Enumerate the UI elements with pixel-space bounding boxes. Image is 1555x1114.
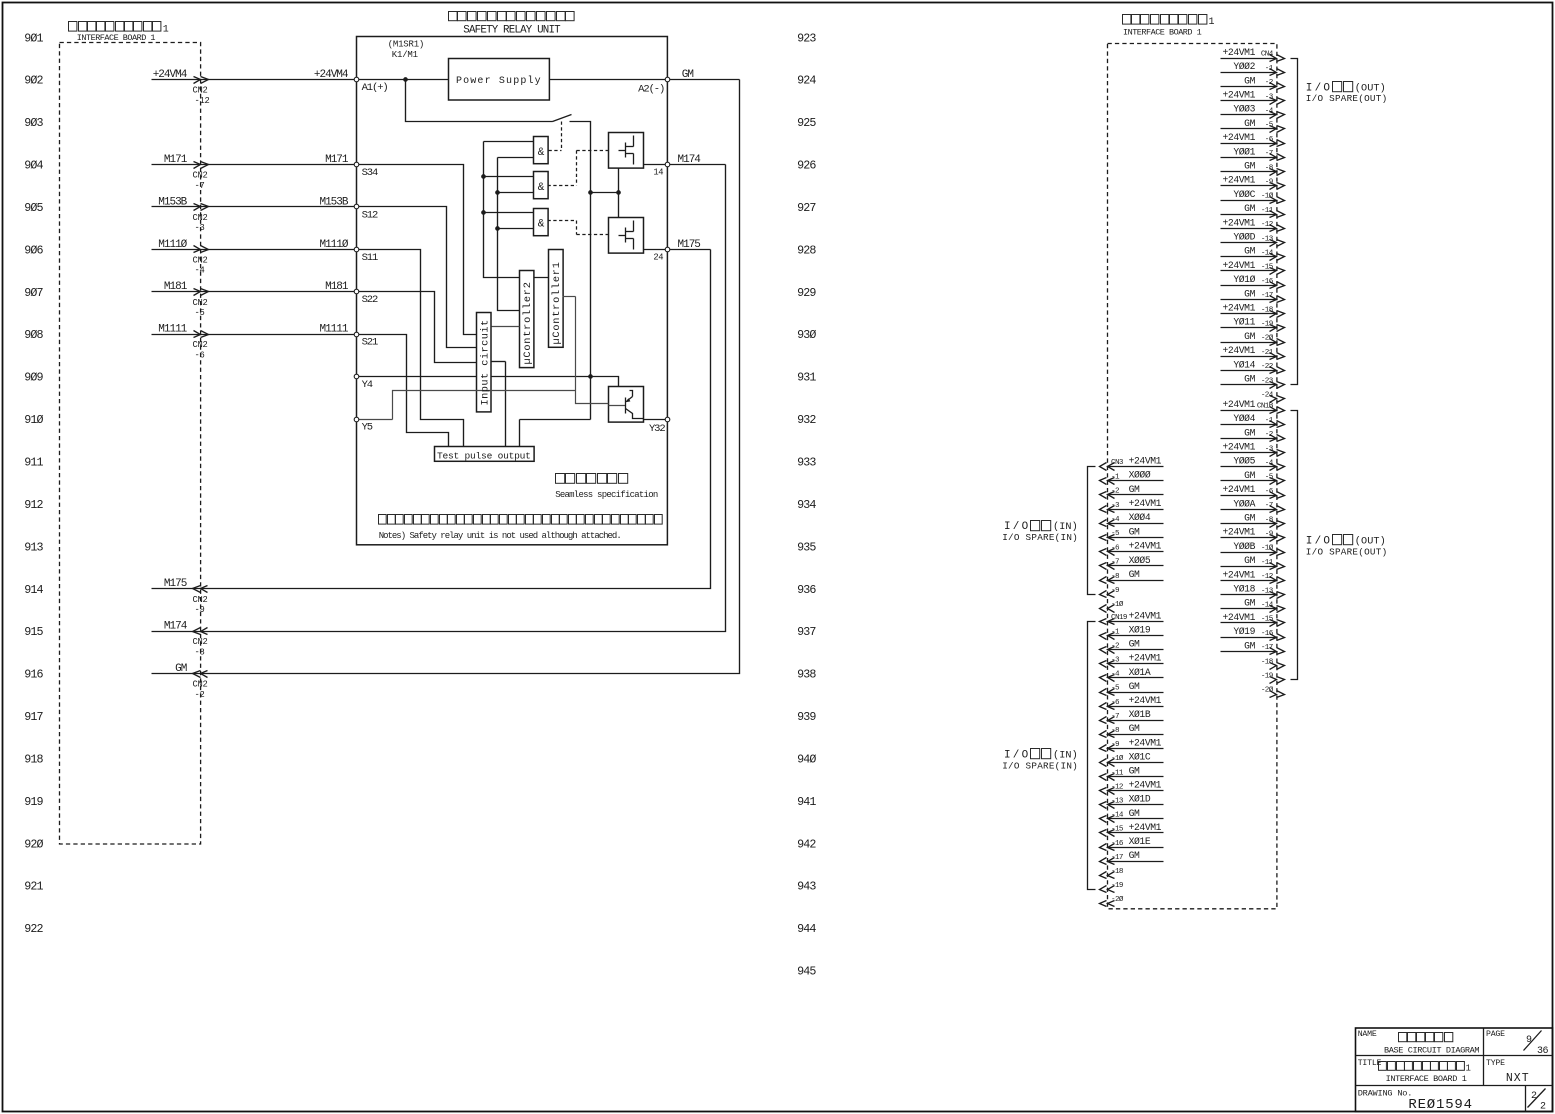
svg-text:-4: -4 [1111, 671, 1120, 679]
svg-text:GM: GM [1244, 640, 1255, 651]
svg-text:XØ1A: XØ1A [1129, 667, 1151, 678]
svg-text:-18: -18 [1111, 868, 1124, 876]
svg-text:M174: M174 [678, 154, 702, 166]
svg-text:+24VM1: +24VM1 [1129, 822, 1162, 833]
svg-text:-7: -7 [1265, 502, 1273, 510]
svg-text:-11: -11 [1111, 769, 1124, 777]
svg-text:GM: GM [1244, 374, 1255, 385]
svg-text:-8: -8 [1265, 516, 1274, 524]
svg-text:-1Ø: -1Ø [1261, 192, 1274, 201]
svg-text:-2Ø: -2Ø [1261, 686, 1274, 695]
svg-text:-5: -5 [1111, 530, 1120, 538]
svg-text:911: 911 [24, 456, 43, 470]
svg-text:-19: -19 [1261, 321, 1274, 329]
svg-text:938: 938 [797, 668, 816, 682]
svg-text:9Ø8: 9Ø8 [24, 328, 43, 342]
svg-text:YØØB: YØØB [1233, 541, 1255, 552]
svg-text:-9: -9 [1111, 587, 1120, 595]
svg-text:-13: -13 [1261, 235, 1274, 243]
svg-text:9Ø2: 9Ø2 [24, 74, 43, 88]
svg-text:939: 939 [797, 710, 816, 724]
svg-text:(M1SR1): (M1SR1) [388, 40, 424, 50]
svg-text:S21: S21 [362, 337, 378, 349]
svg-text:PAGE: PAGE [1486, 1030, 1505, 1039]
svg-text:+24VM1: +24VM1 [1223, 612, 1256, 623]
svg-text:YØØ3: YØØ3 [1233, 104, 1255, 115]
svg-text:Y4: Y4 [362, 379, 373, 391]
svg-text:935: 935 [797, 540, 816, 554]
svg-text:CN1B: CN1B [1257, 403, 1274, 411]
svg-text:944: 944 [797, 922, 816, 936]
svg-text:91Ø: 91Ø [24, 413, 43, 427]
svg-text:945: 945 [797, 965, 816, 979]
svg-text:SAFETY RELAY UNIT: SAFETY RELAY UNIT [463, 25, 561, 37]
svg-text:-23: -23 [1261, 377, 1274, 385]
svg-text:GM: GM [175, 663, 187, 675]
svg-text:94Ø: 94Ø [797, 752, 816, 766]
svg-text:-22: -22 [1261, 363, 1274, 371]
svg-text:A2(-): A2(-) [638, 83, 664, 95]
svg-text:933: 933 [797, 456, 816, 470]
svg-text:NXT: NXT [1506, 1072, 1530, 1085]
svg-text:2: 2 [1531, 1091, 1537, 1102]
svg-text:µController1: µController1 [551, 261, 563, 344]
svg-text:S11: S11 [362, 252, 378, 264]
svg-text:GM: GM [1129, 484, 1140, 495]
svg-text:CN2: CN2 [193, 595, 208, 605]
svg-text:-16: -16 [1261, 630, 1274, 638]
svg-text:GM: GM [1244, 598, 1255, 609]
svg-text:927: 927 [797, 201, 816, 215]
svg-text:CN2: CN2 [193, 340, 208, 350]
svg-text:I/O SPARE(OUT): I/O SPARE(OUT) [1306, 547, 1388, 558]
svg-text:M171: M171 [164, 154, 188, 166]
svg-text:-14: -14 [1111, 812, 1124, 820]
svg-text:+24VM1: +24VM1 [1223, 345, 1256, 356]
svg-text:Test pulse output: Test pulse output [437, 450, 531, 461]
svg-text:-11: -11 [1261, 207, 1274, 215]
svg-text:YØ18: YØ18 [1233, 584, 1255, 595]
svg-text:-4: -4 [1265, 108, 1274, 116]
svg-text:+24VM1: +24VM1 [1223, 399, 1256, 410]
svg-text:9Ø6: 9Ø6 [24, 243, 43, 257]
svg-text:INTERFACE BOARD 1: INTERFACE BOARD 1 [1123, 28, 1202, 38]
svg-text:-7: -7 [1111, 713, 1119, 721]
svg-text:-1: -1 [1265, 417, 1274, 425]
svg-text:XØØØ: XØØØ [1129, 470, 1151, 481]
svg-text:YØ1Ø: YØ1Ø [1233, 274, 1255, 285]
svg-text:937: 937 [797, 625, 816, 639]
svg-text:M1111: M1111 [319, 324, 348, 336]
svg-text:GM: GM [1244, 161, 1255, 172]
svg-text:GM: GM [1129, 681, 1140, 692]
svg-text:931: 931 [797, 371, 816, 385]
svg-text:-16: -16 [1111, 840, 1124, 848]
svg-text:-7: -7 [1265, 150, 1273, 158]
svg-text:92Ø: 92Ø [24, 837, 43, 851]
svg-text:XØØ5: XØØ5 [1129, 555, 1151, 566]
svg-text:CN2: CN2 [193, 255, 208, 265]
svg-text:1: 1 [1209, 17, 1215, 28]
svg-text:+24VM1: +24VM1 [1129, 498, 1162, 509]
svg-text:-1Ø: -1Ø [1111, 600, 1124, 609]
svg-text:+24VM4: +24VM4 [153, 69, 188, 81]
svg-text:INTERFACE BOARD 1: INTERFACE BOARD 1 [1386, 1074, 1467, 1084]
svg-text:+24VM1: +24VM1 [1223, 569, 1256, 580]
svg-text:-1: -1 [1111, 473, 1120, 481]
svg-text:-7: -7 [195, 181, 205, 191]
svg-text:-3: -3 [195, 223, 205, 233]
svg-text:943: 943 [797, 880, 816, 894]
svg-text:+24VM1: +24VM1 [1129, 455, 1162, 466]
svg-text:-17: -17 [1111, 854, 1123, 862]
svg-text:XØ1C: XØ1C [1129, 751, 1151, 762]
svg-text:917: 917 [24, 710, 43, 724]
svg-text:+24VM1: +24VM1 [1129, 653, 1162, 664]
svg-text:CN2: CN2 [193, 637, 208, 647]
svg-text:I/O SPARE(OUT): I/O SPARE(OUT) [1306, 93, 1388, 104]
svg-text:-9: -9 [1265, 531, 1274, 539]
svg-text:-13: -13 [1111, 798, 1124, 806]
svg-text:-13: -13 [1261, 587, 1274, 595]
svg-text:+24VM1: +24VM1 [1129, 737, 1162, 748]
svg-text:-2: -2 [1111, 642, 1120, 650]
svg-text:-9: -9 [1265, 179, 1274, 187]
svg-text:-4: -4 [1111, 516, 1120, 524]
svg-text:M1111: M1111 [158, 324, 187, 336]
svg-text:TITLE: TITLE [1358, 1059, 1382, 1068]
svg-text:M175: M175 [678, 239, 701, 251]
svg-text:K1/M1: K1/M1 [392, 50, 418, 60]
svg-text:YØØC: YØØC [1233, 189, 1255, 200]
svg-text:2: 2 [1540, 1102, 1546, 1113]
svg-text:-2: -2 [1111, 488, 1120, 496]
svg-text:YØØ2: YØØ2 [1233, 61, 1255, 72]
svg-text:YØ11: YØ11 [1233, 317, 1255, 328]
svg-text:-5: -5 [1265, 474, 1274, 482]
svg-text:1: 1 [163, 25, 169, 36]
svg-text:+24VM1: +24VM1 [1223, 527, 1256, 538]
svg-text:-15: -15 [1111, 826, 1124, 834]
svg-text:A1(+): A1(+) [362, 82, 388, 94]
svg-text:-12: -12 [1261, 573, 1274, 581]
svg-text:CN4: CN4 [1261, 51, 1274, 59]
svg-text:36: 36 [1537, 1046, 1549, 1057]
svg-text:919: 919 [24, 795, 43, 809]
svg-text:M153B: M153B [319, 196, 348, 208]
svg-text:M153B: M153B [158, 196, 187, 208]
svg-text:1: 1 [1466, 1064, 1471, 1074]
svg-text:-21: -21 [1261, 349, 1274, 357]
svg-text:CN2: CN2 [193, 86, 208, 96]
svg-text:DRAWING No.: DRAWING No. [1358, 1088, 1413, 1098]
svg-text:942: 942 [797, 837, 816, 851]
svg-text:+24VM1: +24VM1 [1129, 695, 1162, 706]
svg-text:929: 929 [797, 286, 816, 300]
svg-text:-8: -8 [195, 647, 205, 657]
svg-text:934: 934 [797, 498, 816, 512]
svg-text:+24VM1: +24VM1 [1129, 780, 1162, 791]
svg-text:GM: GM [1129, 569, 1140, 580]
svg-text:&: & [538, 219, 545, 231]
svg-text:-2Ø: -2Ø [1111, 895, 1124, 904]
svg-text:&: & [538, 182, 545, 194]
svg-text:-1: -1 [1265, 65, 1274, 73]
svg-text:CN2: CN2 [193, 298, 208, 308]
svg-text:-15: -15 [1261, 616, 1274, 624]
svg-text:-5: -5 [1111, 685, 1120, 693]
svg-text:YØ19: YØ19 [1233, 626, 1255, 637]
svg-text:+24VM1: +24VM1 [1223, 132, 1256, 143]
svg-text:921: 921 [24, 880, 43, 894]
svg-text:912: 912 [24, 498, 43, 512]
svg-text:+24VM1: +24VM1 [1223, 90, 1256, 101]
svg-text:936: 936 [797, 583, 816, 597]
svg-text:I/O SPARE(IN): I/O SPARE(IN) [1002, 761, 1078, 772]
svg-text:Input circuit: Input circuit [479, 319, 491, 405]
svg-text:-1Ø: -1Ø [1111, 754, 1124, 763]
svg-text:GM: GM [1244, 288, 1255, 299]
svg-text:+24VM1: +24VM1 [1223, 217, 1256, 228]
svg-text:GM: GM [1244, 427, 1255, 438]
svg-text:GM: GM [1244, 555, 1255, 566]
svg-text:Y5: Y5 [362, 422, 373, 434]
svg-text:-17: -17 [1261, 644, 1273, 652]
svg-text:-6: -6 [195, 350, 205, 360]
svg-text:-18: -18 [1261, 306, 1274, 314]
svg-text:-1: -1 [1111, 628, 1120, 636]
svg-text:-6: -6 [1111, 699, 1120, 707]
svg-text:-8: -8 [1265, 164, 1274, 172]
svg-text:GM: GM [1129, 639, 1140, 650]
svg-text:93Ø: 93Ø [797, 328, 816, 342]
svg-text:926: 926 [797, 159, 816, 173]
svg-text:918: 918 [24, 752, 43, 766]
svg-text:-17: -17 [1261, 292, 1273, 300]
svg-text:M174: M174 [164, 621, 188, 633]
svg-text:CN2: CN2 [193, 213, 208, 223]
svg-text:+24VM1: +24VM1 [1129, 541, 1162, 552]
svg-text:CN2: CN2 [193, 680, 208, 690]
svg-text:Notes) Safety relay unit is no: Notes) Safety relay unit is not used alt… [379, 531, 621, 541]
svg-text:GM: GM [1244, 203, 1255, 214]
svg-text:-18: -18 [1261, 658, 1274, 666]
svg-text:YØØA: YØØA [1233, 498, 1255, 509]
svg-text:-2: -2 [1265, 79, 1274, 87]
svg-text:M111Ø: M111Ø [158, 239, 187, 251]
svg-text:-15: -15 [1261, 264, 1274, 272]
svg-text:M171: M171 [325, 154, 349, 166]
svg-text:-12: -12 [1111, 783, 1124, 791]
svg-text:-16: -16 [1261, 278, 1274, 286]
svg-text:NAME: NAME [1358, 1030, 1377, 1039]
svg-text:S34: S34 [362, 167, 378, 179]
svg-text:M111Ø: M111Ø [319, 239, 348, 251]
svg-text:GM: GM [1129, 766, 1140, 777]
svg-text:BASE CIRCUIT DIAGRAM: BASE CIRCUIT DIAGRAM [1384, 1045, 1479, 1055]
svg-text:9Ø4: 9Ø4 [24, 159, 43, 173]
svg-text:+24VM1: +24VM1 [1223, 47, 1256, 58]
svg-text:S22: S22 [362, 294, 378, 306]
svg-text:-3: -3 [1111, 657, 1120, 665]
svg-text:-12: -12 [195, 96, 210, 106]
svg-text:-5: -5 [1265, 122, 1274, 130]
svg-text:+24VM1: +24VM1 [1129, 610, 1162, 621]
svg-text:-14: -14 [1261, 602, 1274, 610]
svg-text:-11: -11 [1261, 559, 1274, 567]
svg-text:GM: GM [1244, 513, 1255, 524]
svg-text:M181: M181 [164, 281, 188, 293]
svg-text:9Ø1: 9Ø1 [24, 31, 43, 45]
svg-text:-19: -19 [1111, 882, 1124, 890]
svg-text:941: 941 [797, 795, 816, 809]
svg-text:9Ø5: 9Ø5 [24, 201, 43, 215]
svg-text:-3: -3 [1265, 445, 1274, 453]
svg-text:YØØ5: YØØ5 [1233, 456, 1255, 467]
svg-text:CN19: CN19 [1111, 614, 1128, 622]
svg-text:+24VM4: +24VM4 [314, 69, 349, 81]
svg-text:TYPE: TYPE [1486, 1059, 1505, 1068]
svg-text:9: 9 [1526, 1035, 1532, 1046]
svg-text:924: 924 [797, 74, 816, 88]
svg-text:REØ1594: REØ1594 [1408, 1097, 1472, 1113]
svg-text:-24: -24 [1261, 392, 1274, 400]
svg-text:-3: -3 [1111, 502, 1120, 510]
svg-text:-9: -9 [195, 605, 205, 615]
svg-text:GM: GM [1129, 723, 1140, 734]
svg-text:928: 928 [797, 243, 816, 257]
svg-text:-3: -3 [1265, 93, 1274, 101]
svg-text:-1Ø: -1Ø [1261, 544, 1274, 553]
svg-text:-6: -6 [1111, 544, 1120, 552]
svg-text:-2Ø: -2Ø [1261, 334, 1274, 343]
svg-text:Y32: Y32 [649, 423, 665, 435]
svg-text:932: 932 [797, 413, 816, 427]
svg-text:-8: -8 [1111, 727, 1120, 735]
svg-text:-6: -6 [1265, 488, 1274, 496]
svg-text:GM: GM [1129, 808, 1140, 819]
svg-text:YØØD: YØØD [1233, 232, 1255, 243]
svg-text:-2: -2 [195, 690, 205, 700]
svg-text:-9: -9 [1111, 741, 1120, 749]
svg-text:CN2: CN2 [193, 171, 208, 181]
svg-text:GM: GM [1244, 331, 1255, 342]
svg-text:XØ1E: XØ1E [1129, 836, 1151, 847]
svg-text:GM: GM [1244, 118, 1255, 129]
svg-text:Seamless specification: Seamless specification [555, 490, 658, 500]
svg-text:915: 915 [24, 625, 43, 639]
svg-text:&: & [538, 147, 545, 159]
svg-text:-4: -4 [195, 266, 205, 276]
svg-text:+24VM1: +24VM1 [1223, 442, 1256, 453]
svg-text:XØ1D: XØ1D [1129, 794, 1151, 805]
svg-text:14: 14 [653, 168, 663, 178]
svg-text:913: 913 [24, 540, 43, 554]
svg-text:-5: -5 [195, 308, 205, 318]
svg-text:GM: GM [1244, 75, 1255, 86]
svg-text:+24VM1: +24VM1 [1223, 484, 1256, 495]
svg-text:YØØ1: YØØ1 [1233, 146, 1255, 157]
svg-text:M175: M175 [164, 578, 187, 590]
svg-text:9Ø3: 9Ø3 [24, 116, 43, 130]
svg-text:INTERFACE BOARD 1: INTERFACE BOARD 1 [77, 33, 156, 43]
svg-text:-19: -19 [1261, 673, 1274, 681]
svg-text:GM: GM [1129, 526, 1140, 537]
svg-text:9Ø9: 9Ø9 [24, 371, 43, 385]
svg-text:XØ1B: XØ1B [1129, 709, 1151, 720]
svg-text:I/O SPARE(IN): I/O SPARE(IN) [1002, 532, 1078, 543]
svg-text:CN3: CN3 [1111, 459, 1124, 467]
svg-text:YØ14: YØ14 [1233, 359, 1255, 370]
svg-text:-8: -8 [1111, 573, 1120, 581]
svg-text:M181: M181 [325, 281, 349, 293]
svg-text:-6: -6 [1265, 136, 1274, 144]
svg-text:922: 922 [24, 922, 43, 936]
svg-text:925: 925 [797, 116, 816, 130]
svg-text:XØ19: XØ19 [1129, 625, 1151, 636]
svg-text:S12: S12 [362, 209, 378, 221]
svg-text:+24VM1: +24VM1 [1223, 303, 1256, 314]
svg-text:-4: -4 [1265, 460, 1274, 468]
svg-text:GM: GM [1129, 850, 1140, 861]
svg-text:923: 923 [797, 31, 816, 45]
svg-text:9Ø7: 9Ø7 [24, 286, 43, 300]
svg-text:GM: GM [1244, 470, 1255, 481]
svg-text:-7: -7 [1111, 559, 1119, 567]
svg-text:-14: -14 [1261, 250, 1274, 258]
svg-text:24: 24 [653, 252, 663, 262]
svg-text:YØØ4: YØØ4 [1233, 413, 1255, 424]
svg-text:+24VM1: +24VM1 [1223, 175, 1256, 186]
svg-text:916: 916 [24, 668, 43, 682]
svg-text:µController2: µController2 [522, 281, 534, 364]
svg-text:-12: -12 [1261, 221, 1274, 229]
svg-text:Power Supply: Power Supply [456, 75, 542, 87]
svg-text:GM: GM [1244, 246, 1255, 257]
svg-text:+24VM1: +24VM1 [1223, 260, 1256, 271]
svg-text:-2: -2 [1265, 431, 1274, 439]
svg-text:914: 914 [24, 583, 43, 597]
svg-text:XØØ4: XØØ4 [1129, 512, 1151, 523]
svg-text:GM: GM [682, 69, 694, 81]
